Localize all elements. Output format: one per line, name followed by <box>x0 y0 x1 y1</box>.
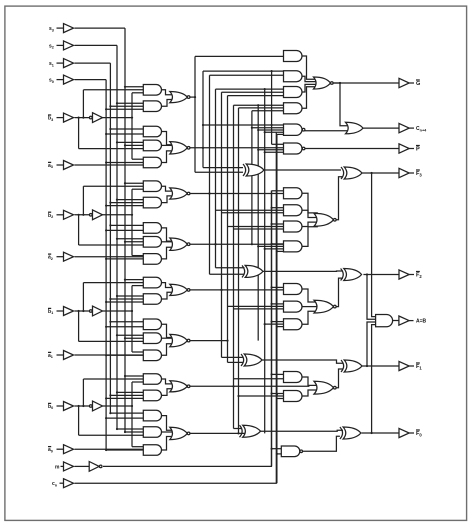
wire net g0 vertical <box>232 105 234 428</box>
svg-text:G: G <box>416 81 420 87</box>
AND gates carry-G cluster <box>284 51 303 114</box>
NOR gate bit2 upper <box>170 188 190 199</box>
NOR gate bit1 lower <box>170 334 190 346</box>
NAND gate P output <box>284 143 305 154</box>
svg-text:m: m <box>55 464 60 470</box>
wire net r4m vertical <box>271 191 273 467</box>
NOR gate bit3 upper <box>170 92 190 103</box>
wire s3 bus <box>75 28 126 432</box>
NOR gate bit0 lower <box>170 427 190 439</box>
output buffer G <box>333 78 420 87</box>
wires F1 inputs <box>262 360 343 388</box>
wires C2 ANDs to NOR <box>302 289 318 324</box>
wire net r1 vertical <box>251 111 253 244</box>
wire net g1 vertical <box>220 92 222 357</box>
wires bit0 cluster inputs <box>75 375 146 451</box>
svg-text:F0: F0 <box>416 431 422 437</box>
svg-text:F2: F2 <box>416 273 422 279</box>
wires F outputs to A=B <box>366 172 376 434</box>
wire net p1 vertical <box>226 96 228 363</box>
wires X3 inputs <box>195 168 243 173</box>
wires bit2 cluster inputs <box>75 182 146 260</box>
input buffer+inverter b0 <box>48 401 103 411</box>
wire s1 bus <box>75 63 111 413</box>
wire net g3 vertical <box>194 56 196 172</box>
input buffer a1 <box>48 351 74 360</box>
AND gates bit0 input cluster <box>143 374 161 456</box>
wires F0 inputs <box>261 430 344 451</box>
AND gates C2 cluster <box>284 284 303 330</box>
wires X1 inputs <box>222 357 244 362</box>
input buffer+inverter b2 <box>48 210 103 220</box>
wire m-bar <box>103 191 271 467</box>
wire s0 bus <box>75 80 107 450</box>
NOR gate C3 <box>314 213 336 226</box>
wires bit3 AND to NOR <box>162 90 174 163</box>
wires C0 inputs <box>272 449 282 454</box>
input buffer+inverter m <box>55 462 102 472</box>
input buffer+inverter b1 <box>48 306 103 316</box>
wire s2 bus <box>75 45 118 429</box>
OR gate Cn+4 <box>305 82 363 134</box>
XOR gate X1 <box>241 354 262 366</box>
wires C2 inputs <box>228 287 286 326</box>
input buffer a0 <box>48 445 74 454</box>
NOR gate C2 <box>314 300 336 313</box>
wires bit1 cluster inputs <box>75 279 146 357</box>
NOR gate bit1 upper <box>170 284 190 295</box>
output buffer F0 <box>362 428 423 437</box>
output buffer F2 <box>363 270 422 279</box>
wires bit0 AND to NOR <box>162 379 174 450</box>
svg-text:F3: F3 <box>416 171 422 177</box>
NOR gate bit2 lower <box>170 238 190 250</box>
wire net p0 vertical <box>237 108 239 434</box>
XOR gate F1 <box>341 360 362 372</box>
output buffer F3 <box>362 168 422 177</box>
svg-text:P: P <box>416 147 420 153</box>
wires bit2 AND to NOR <box>162 186 174 259</box>
XOR gate F2 <box>341 269 362 281</box>
wires bit3 cluster inputs <box>75 86 146 165</box>
NAND gate C0 <box>281 446 302 457</box>
input buffer+inverter b3 <box>48 113 103 123</box>
NAND gate Cn+4 term <box>284 124 305 135</box>
output buffer A=B <box>393 316 427 325</box>
wire net r4u vertical <box>271 71 273 144</box>
wires X2 inputs <box>210 268 245 275</box>
svg-text:A=B: A=B <box>416 319 427 325</box>
XOR gate X0 <box>240 425 261 437</box>
output buffer P <box>305 144 420 153</box>
wire net p2 vertical <box>214 89 216 268</box>
input buffer s1 <box>49 59 74 68</box>
NOR gate bit3 lower <box>170 142 190 154</box>
svg-text:F1: F1 <box>416 364 422 370</box>
AND gates C1 cluster <box>284 372 303 402</box>
wires G cluster inputs <box>195 56 286 110</box>
input buffer s2 <box>49 41 74 50</box>
AND gates C3 cluster <box>284 188 303 252</box>
input buffer a2 <box>48 252 74 261</box>
wires F2 inputs <box>263 271 343 307</box>
output buffer F1 <box>362 361 422 370</box>
wires C1 inputs <box>234 374 286 398</box>
XOR gate X3 <box>243 164 264 176</box>
wires G cluster ANDs to NOR <box>302 56 317 108</box>
wire net r2 vertical <box>257 105 259 340</box>
wires NAND inputs <box>202 124 286 152</box>
XOR gate F3 <box>341 167 362 179</box>
AND gate A=B <box>376 315 393 327</box>
input buffer s0 <box>49 75 74 84</box>
output buffer Cn+4 <box>363 123 427 132</box>
wire cn <box>75 132 277 483</box>
wire net r3 vertical <box>264 89 266 433</box>
input buffer a3 <box>48 161 74 170</box>
input buffer cn <box>52 479 74 488</box>
input buffer s3 <box>49 24 74 33</box>
XOR gate X2 <box>242 265 263 277</box>
wires NOR outputs to bus <box>189 97 310 434</box>
wire net g2 vertical <box>208 75 210 274</box>
wire net r5 vertical <box>276 134 278 483</box>
wires C1 ANDs to NOR <box>302 377 318 396</box>
wires C3 inputs <box>216 191 286 252</box>
wires bit1 AND to NOR <box>162 283 174 356</box>
wires X0 inputs <box>234 428 243 430</box>
AND gates bit3 input cluster <box>143 85 161 168</box>
NOR gate C1 <box>314 381 336 394</box>
XOR gate F0 <box>340 427 361 439</box>
NOR gate G output <box>314 77 334 89</box>
NOR gate bit0 upper <box>170 381 190 392</box>
wires F3 inputs <box>264 170 343 220</box>
AND gates bit2 input cluster <box>143 181 161 264</box>
wire net p3 vertical <box>202 71 204 168</box>
wires C3 ANDs to NOR <box>302 193 318 246</box>
AND gates bit1 input cluster <box>143 277 161 360</box>
